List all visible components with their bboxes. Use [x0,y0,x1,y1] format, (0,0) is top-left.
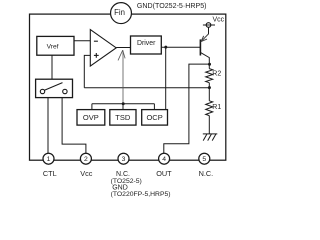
svg-text:3: 3 [122,156,126,163]
svg-text:Vcc: Vcc [213,16,225,23]
svg-text:R2: R2 [212,71,221,78]
svg-text:Vref: Vref [47,43,59,50]
svg-text:4: 4 [162,156,166,163]
svg-text:GND(TO252-5·HRP5): GND(TO252-5·HRP5) [137,2,207,10]
svg-text:2: 2 [84,156,88,163]
svg-text:Fin: Fin [114,8,125,17]
svg-text:1: 1 [47,156,51,163]
svg-text:OCP: OCP [146,113,162,122]
svg-text:5: 5 [202,156,206,163]
svg-text:Vcc: Vcc [80,169,93,178]
svg-text:(TO220FP-5,HRP5): (TO220FP-5,HRP5) [111,191,171,198]
svg-text:Driver: Driver [137,40,156,47]
svg-text:OVP: OVP [83,113,99,122]
svg-text:N.C.: N.C. [199,169,214,178]
svg-text:R1: R1 [212,104,221,111]
svg-text:TSD: TSD [115,113,131,122]
svg-text:OUT: OUT [156,169,172,178]
svg-text:CTL: CTL [43,169,57,178]
